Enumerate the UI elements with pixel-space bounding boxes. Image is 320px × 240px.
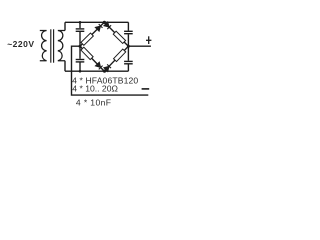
- node left snubber top junction: [79, 21, 82, 24]
- wire bottom AC rail: [65, 70, 128, 72]
- wire DC plus output: [128, 45, 151, 47]
- wire right snubber branch lower: [127, 64, 129, 71]
- wire C1 to left node: [79, 32, 81, 46]
- label +: [146, 36, 151, 44]
- wire left node to C2: [79, 46, 81, 59]
- node left snubber bottom junction: [79, 70, 82, 73]
- wire secondary top riser: [64, 22, 66, 30]
- wire bridge arm upper-left: [80, 22, 104, 46]
- transformer T1 primary winding: [40, 31, 47, 61]
- svg-text:4 * 10nF: 4 * 10nF: [76, 98, 112, 108]
- wire C3 to right node: [127, 34, 129, 46]
- wire left snubber branch upper: [79, 22, 81, 28]
- wire right snubber branch upper: [127, 22, 129, 30]
- node bottom AC junction: [103, 70, 106, 73]
- wire secondary bottom riser: [64, 61, 66, 71]
- diode D1 HFA06TB120 upper-left: [95, 24, 102, 31]
- wire bridge arm upper-right: [104, 22, 128, 46]
- resistor R1 10..20R upper-left: [81, 33, 93, 45]
- capacitor C2 10nF: [76, 60, 85, 62]
- wire bridge arm lower-right: [104, 46, 128, 71]
- wire right node to C4: [127, 46, 129, 61]
- transformer T1 core: [50, 29, 52, 62]
- wire DC minus output: [72, 46, 149, 95]
- diode D4 HFA06TB120 lower-right: [104, 64, 111, 71]
- transformer T1 secondary winding: [58, 31, 65, 61]
- wire bridge arm lower-left: [80, 46, 104, 71]
- node top AC junction: [103, 21, 106, 24]
- node plus right junction: [127, 45, 130, 48]
- diode D3 HFA06TB120 lower-left: [95, 62, 102, 69]
- capacitor C3 10nF: [124, 31, 133, 33]
- resistor R3 10..20R upper-right: [113, 31, 125, 43]
- wire left snubber branch lower: [79, 63, 81, 72]
- svg-text:~220V: ~220V: [7, 39, 34, 49]
- diode D2 HFA06TB120 upper-right: [104, 22, 111, 29]
- capacitor C1 10nF: [76, 29, 85, 31]
- resistor R2 10..20R lower-left: [81, 47, 93, 59]
- label -: [142, 88, 150, 90]
- capacitor C4 10nF: [124, 61, 133, 63]
- node minus left junction: [79, 45, 82, 48]
- wire top AC rail: [65, 21, 128, 23]
- resistor R4 10..20R lower-right: [114, 49, 126, 61]
- svg-text:4 * 10.. 20Ω: 4 * 10.. 20Ω: [72, 83, 118, 93]
